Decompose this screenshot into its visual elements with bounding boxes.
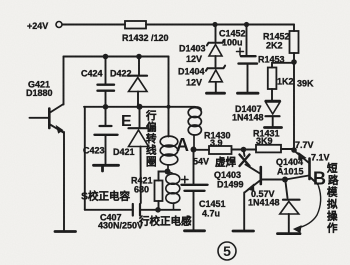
wire G421 emitter to ground [63, 132, 65, 230]
transistor G421 [30, 104, 64, 133]
resistor R1452 [290, 25, 299, 61]
ground 1N4148 [278, 232, 301, 235]
resistor R1431 [256, 145, 281, 153]
diode D1407 [266, 101, 281, 126]
wire R1430 to junction [232, 149, 257, 151]
transistor Q1403 [245, 165, 286, 193]
inductor deflection coil right winding [188, 107, 201, 148]
capacitor C1451 [182, 150, 208, 230]
X mark cold joint [240, 155, 250, 167]
resistor R1430 [209, 146, 232, 154]
ground Q1403 [233, 230, 254, 233]
node R1452 R1453 junction [291, 59, 297, 65]
node 7.7V [291, 147, 297, 153]
wire rail2 right drop [168, 57, 170, 137]
resistor R1432 [125, 21, 146, 29]
resistor R1453 1K2 [268, 63, 292, 100]
transistor Q1404 [286, 151, 319, 185]
node base junction [282, 177, 288, 183]
diode D421 [129, 107, 149, 147]
wire 39K line [293, 65, 295, 149]
wire bottom rail left [85, 209, 132, 211]
wire G421 collector to rail2 [63, 57, 65, 105]
node R1430 R1431 junction [241, 147, 247, 153]
diode 1N4148 bottom [280, 180, 300, 232]
capacitor C1452 [237, 25, 258, 92]
wire Q1403 emitter to ground [243, 193, 245, 230]
wire bottom rail right [141, 209, 180, 211]
resistor R421 [155, 172, 167, 209]
ground C1451 [185, 229, 205, 232]
capacitor C423 [95, 107, 118, 164]
wire E rail left drop [84, 107, 86, 210]
node bottom rail R421 [155, 207, 161, 213]
node rail2 C424 [103, 54, 109, 60]
wire rail2 [64, 56, 169, 58]
wire E rail [84, 106, 195, 108]
node top rail D1403 tap [212, 22, 217, 27]
wire junction to X [244, 150, 245, 156]
diode D422 [129, 57, 148, 106]
ground C423 [94, 165, 119, 171]
node A [191, 147, 197, 153]
wire +24V rail [63, 24, 295, 26]
zener D1404 [206, 66, 225, 92]
ground D1404 [207, 92, 225, 95]
ground D1407 [265, 126, 282, 129]
node rail2 D422 [136, 54, 142, 60]
arrow short-circuit operation [294, 186, 321, 232]
node coil cross [167, 105, 171, 109]
node E rail C423 [103, 104, 109, 110]
inductor deflection coil left winding [160, 136, 178, 170]
wire D421 to bottom rail [140, 147, 142, 204]
terminal +24V [56, 22, 62, 28]
zener D1403 [207, 25, 224, 68]
scan noise [0, 0, 1, 1]
node E rail D421 [137, 104, 143, 110]
wire A rail [194, 149, 210, 151]
inductor line-correction coil [166, 172, 180, 210]
capacitor C424 [98, 57, 115, 107]
label circled 5 [218, 242, 236, 260]
ground G421 [55, 230, 76, 233]
wire R1431 to 7.7V node [281, 148, 294, 150]
node top rail C1452 tap [244, 22, 249, 27]
node coil bottom [165, 169, 171, 175]
capacitor C407 [133, 204, 140, 216]
ground C1452 [238, 92, 259, 95]
